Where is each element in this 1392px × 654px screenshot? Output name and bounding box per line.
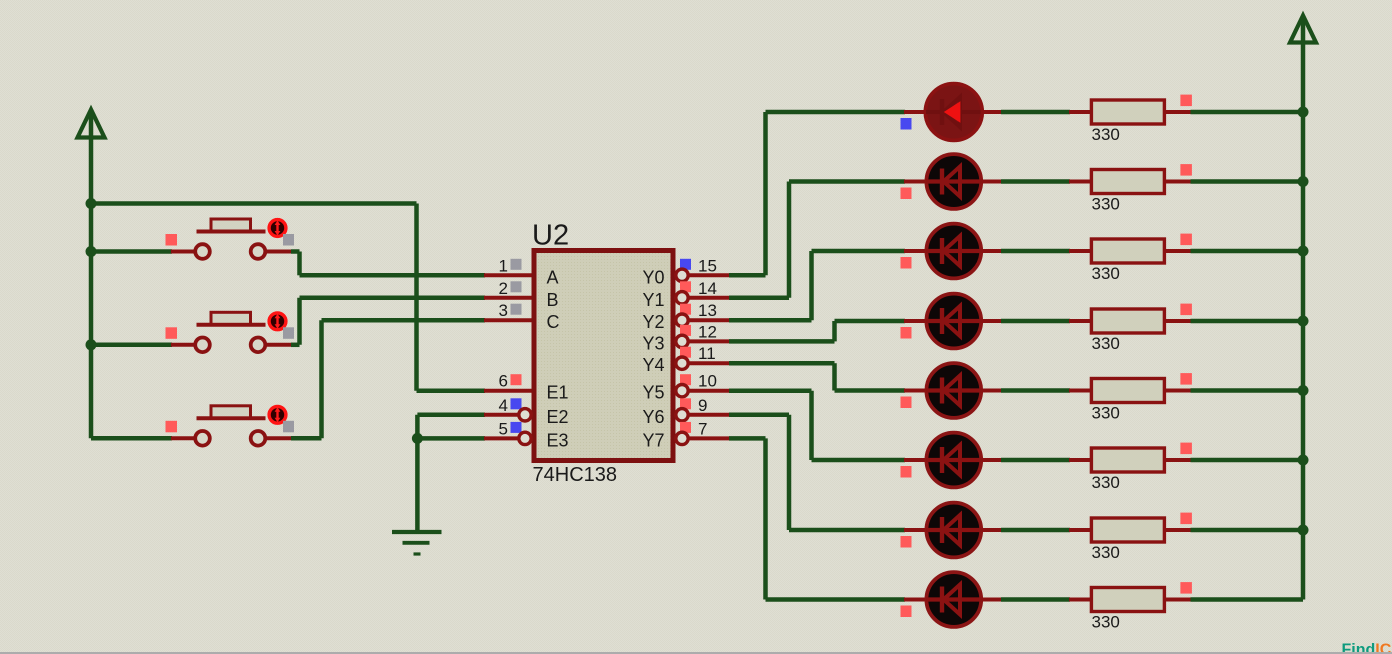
tag square left of LED D7	[901, 536, 912, 548]
push button S2	[195, 312, 265, 352]
bottom window edge strip	[0, 652, 1392, 654]
wire: routing column x=789 Y6 to LED row	[787, 415, 792, 530]
LED D4 (off)	[926, 294, 981, 349]
power terminal right (VCC arrow)	[1290, 16, 1316, 43]
ground symbol	[392, 532, 442, 554]
wire: resistor R5 to VCC bus	[1164, 389, 1303, 393]
junction dot VCC bus row 7	[1298, 525, 1309, 536]
value label 330 of R1	[1092, 125, 1120, 144]
svg-text:Y4: Y4	[642, 355, 664, 375]
wire: LED row 1 horizontal into LED D1	[766, 110, 926, 115]
svg-text:U2: U2	[532, 220, 569, 252]
wire: Y4 pin stub to routing column	[688, 361, 835, 365]
wire: LED D2 to resistor R2	[981, 180, 1093, 184]
svg-text:330: 330	[1092, 125, 1120, 144]
pin 2 (B) label and number	[499, 279, 559, 310]
tag square right of resistor R1	[1180, 95, 1192, 107]
LED D3 (off)	[926, 224, 981, 279]
value label 330 of R3	[1092, 264, 1120, 283]
wire: resistor R8 to VCC bus	[1164, 598, 1303, 602]
wire: resistor R3 to VCC bus	[1164, 249, 1303, 253]
wire: routing column x=811.5 Y5 to LED row	[809, 391, 814, 460]
wire: Y7 pin stub to routing column	[688, 436, 766, 440]
wire: LED row 7 horizontal into LED D7	[789, 528, 925, 533]
wire: vertical x=321.5 from button 3 row to decoder input row	[319, 320, 324, 438]
resistor R4 330 body	[1091, 309, 1164, 333]
wire: top rail from VCC to E1 drop	[89, 201, 417, 206]
wire: LED row 4 horizontal into LED D4	[835, 319, 926, 324]
pin 10 (Y5) bubble, label, number	[642, 372, 716, 403]
wire: net C into pin 3	[322, 318, 534, 323]
wire: Y3 pin stub to routing column	[688, 339, 835, 343]
junction dot at VCC rail / top rail	[86, 198, 97, 209]
svg-text:13: 13	[698, 301, 717, 320]
tag square left of LED D6	[901, 466, 912, 478]
pin 12 (Y3) bubble, label, number	[642, 322, 716, 353]
wire: net B into pin 2	[300, 296, 534, 301]
tag square right of resistor R8	[1180, 582, 1192, 594]
junction dot VCC bus row 4	[1298, 316, 1309, 327]
tag square right of resistor R2	[1180, 164, 1192, 176]
svg-text:A: A	[547, 267, 559, 287]
svg-text:Y0: Y0	[642, 267, 664, 287]
label U2	[532, 220, 569, 252]
svg-text:330: 330	[1092, 195, 1120, 214]
wire: LED D1 to resistor R1	[981, 110, 1093, 114]
value label 330 of R6	[1092, 473, 1120, 492]
pin 3 (C) label and number	[499, 301, 560, 332]
svg-text:7: 7	[698, 419, 707, 438]
pin 1 (A) label and number	[499, 256, 559, 287]
wire: E3 to ground column	[417, 436, 519, 441]
wire: LED row 8 horizontal into LED D8	[766, 597, 926, 602]
svg-text:Y3: Y3	[642, 333, 664, 353]
wire: LED D6 to resistor R6	[981, 458, 1093, 462]
wire: button 2 right terminal to column x=299.5	[265, 343, 300, 347]
wire: LED D3 to resistor R3	[981, 249, 1093, 253]
wire: ground column vertical	[415, 415, 420, 530]
wire: Y2 pin stub to routing column	[688, 318, 812, 322]
pin 15 (Y0) bubble, label, number	[642, 256, 716, 287]
svg-text:Y7: Y7	[642, 430, 664, 450]
svg-text:3: 3	[499, 301, 508, 320]
value label 330 of R8	[1092, 613, 1120, 632]
pin 13 (Y2) bubble, label, number	[642, 301, 716, 332]
wire: button 3 right terminal to column x=321.5	[265, 436, 322, 440]
power terminal left (VCC arrow)	[78, 110, 105, 140]
wire: right VCC bus vertical	[1301, 19, 1306, 600]
svg-text:10: 10	[698, 372, 717, 391]
resistor R5 330 body	[1091, 379, 1164, 403]
svg-text:E1: E1	[547, 383, 569, 403]
svg-text:12: 12	[698, 322, 717, 341]
svg-text:330: 330	[1092, 473, 1120, 492]
svg-text:330: 330	[1092, 264, 1120, 283]
tag square right of resistor R5	[1180, 373, 1192, 385]
button 2 toggle actuator icon	[269, 313, 286, 330]
gray tag square right of button 1	[283, 234, 294, 246]
wire: vertical drop x=416.5 to E1 row	[414, 204, 419, 391]
red tag square left of button 2	[166, 327, 178, 339]
wire: LED D7 to resistor R7	[981, 528, 1093, 532]
watermark FindIC	[1342, 642, 1392, 654]
wire: LED D8 to resistor R8	[981, 598, 1093, 602]
push button S3	[195, 406, 265, 446]
svg-text:330: 330	[1092, 404, 1120, 423]
pin 4 (E2) label and number	[499, 396, 569, 427]
wire: vertical x=299.5 from button 1 row to decoder input row	[297, 252, 302, 276]
svg-text:330: 330	[1092, 543, 1120, 562]
wire: VCC rail to button 1 left terminal	[91, 249, 196, 254]
gray tag square right of button 3	[283, 421, 294, 433]
junction dot VCC rail / button1 wire	[86, 246, 97, 257]
svg-text:15: 15	[698, 256, 717, 275]
svg-text:Y5: Y5	[642, 383, 664, 403]
wire: resistor R4 to VCC bus	[1164, 319, 1303, 323]
pin 5 (E3) label and number	[499, 419, 569, 450]
op IC U2 74HC138 body	[534, 251, 673, 461]
svg-text:74HC138: 74HC138	[533, 464, 618, 486]
wire: Y5 pin stub to routing column	[688, 389, 812, 393]
value label 330 of R7	[1092, 543, 1120, 562]
wire: LED row 6 horizontal into LED D6	[812, 458, 926, 463]
wire: resistor R6 to VCC bus	[1164, 458, 1303, 462]
tag square right of resistor R7	[1180, 513, 1192, 525]
svg-text:Y6: Y6	[642, 407, 664, 427]
button 3 toggle actuator icon	[269, 406, 286, 423]
LED D5 (off)	[926, 363, 981, 418]
wire: LED row 3 horizontal into LED D3	[812, 249, 926, 254]
wire: resistor R2 to VCC bus	[1164, 180, 1303, 184]
value label 330 of R2	[1092, 195, 1120, 214]
pin 14 (Y1) bubble, label, number	[642, 279, 716, 310]
junction dot E2/E3 ground column	[412, 433, 423, 444]
resistor R6 330 body	[1091, 448, 1164, 472]
pin 7 (Y7) bubble, label, number	[642, 419, 707, 450]
LED D8 (off)	[926, 572, 981, 627]
junction dot VCC bus row 3	[1298, 246, 1309, 257]
pin 9 (Y6) bubble, label, number	[642, 396, 707, 427]
svg-text:B: B	[547, 290, 559, 310]
wire: VCC rail to button 2 left terminal	[91, 343, 196, 348]
svg-text:9: 9	[698, 396, 707, 415]
tag square left of LED D5	[901, 397, 912, 409]
pin 11 (Y4) bubble, label, number	[642, 344, 715, 375]
svg-text:330: 330	[1092, 613, 1120, 632]
junction dot VCC bus row 1	[1298, 107, 1309, 118]
wire: Y0 pin stub to routing column	[688, 273, 766, 277]
LED D6 (off)	[926, 433, 981, 488]
wire: net A into pin 1	[300, 273, 534, 278]
svg-text:1: 1	[499, 256, 508, 275]
svg-text:Y1: Y1	[642, 290, 664, 310]
svg-text:5: 5	[499, 419, 508, 438]
tag square right of resistor R6	[1180, 443, 1192, 455]
junction dot VCC bus row 5	[1298, 385, 1309, 396]
wire: Y6 pin stub to routing column	[688, 413, 789, 417]
value label 330 of R5	[1092, 404, 1120, 423]
tag square left of LED D4	[901, 327, 912, 339]
svg-text:330: 330	[1092, 334, 1120, 353]
wire: button 1 right terminal to column x=299.5	[265, 250, 300, 254]
wire: routing column x=834.5 Y4 to LED row	[832, 363, 837, 390]
wire: routing column x=811.5 Y2 to LED row	[809, 251, 814, 320]
wire: left VCC rail vertical	[89, 137, 94, 438]
LED D1 (lit)	[925, 84, 982, 141]
svg-text:11: 11	[698, 344, 716, 363]
wire: LED D4 to resistor R4	[981, 319, 1093, 323]
tag square left of LED D8	[901, 606, 912, 618]
tag square left of LED D3	[901, 257, 912, 269]
junction dot VCC rail / button2 wire	[86, 339, 97, 350]
wire: routing column x=834.5 Y3 to LED row	[832, 321, 837, 341]
wire: vertical x=299.5 from button 2 row to decoder input row	[297, 298, 302, 345]
junction dot VCC bus row 2	[1298, 176, 1309, 187]
wire: resistor R7 to VCC bus	[1164, 528, 1303, 532]
red tag square left of button 3	[166, 421, 178, 433]
wire: VCC rail to button 3 left terminal	[91, 436, 196, 441]
svg-text:4: 4	[499, 396, 508, 415]
resistor R2 330 body	[1091, 170, 1164, 194]
LED D7 (off)	[926, 503, 981, 558]
label 74HC138	[533, 464, 618, 486]
value label 330 of R4	[1092, 334, 1120, 353]
svg-text:14: 14	[698, 279, 717, 298]
resistor R7 330 body	[1091, 518, 1164, 542]
gray tag square right of button 2	[283, 327, 294, 339]
wire: routing column x=765.5 Y0 to LED row	[763, 112, 768, 275]
push button S1	[195, 219, 265, 259]
wire: routing column x=765.5 Y7 to LED row	[763, 438, 768, 599]
svg-text:6: 6	[499, 372, 508, 391]
junction dot VCC bus row 6	[1298, 455, 1309, 466]
svg-text:C: C	[547, 312, 560, 332]
tag square right of resistor R3	[1180, 234, 1192, 246]
LED D2 (off)	[926, 154, 981, 209]
wire: Y1 pin stub to routing column	[688, 296, 789, 300]
tag square left of LED D2	[901, 188, 912, 200]
wire: LED row 2 horizontal into LED D2	[789, 179, 925, 184]
resistor R8 330 body	[1091, 588, 1164, 612]
svg-text:E2: E2	[547, 407, 569, 427]
wire: E2 to ground column	[417, 413, 519, 418]
tag square left of LED D1	[901, 118, 912, 130]
resistor R1 330 body	[1091, 100, 1164, 124]
wire: routing column x=789 Y1 to LED row	[787, 182, 792, 298]
svg-text:Y2: Y2	[642, 312, 664, 332]
tag square right of resistor R4	[1180, 304, 1192, 316]
wire: resistor R1 to VCC bus	[1164, 110, 1303, 114]
svg-text:2: 2	[499, 279, 508, 298]
button 1 toggle actuator icon	[269, 220, 286, 237]
wire: LED row 5 horizontal into LED D5	[835, 388, 926, 393]
pin 6 (E1) label and number	[499, 372, 569, 403]
wire: LED D5 to resistor R5	[981, 389, 1093, 393]
svg-text:E3: E3	[547, 430, 569, 450]
wire: E1 enable into pin 6	[417, 388, 534, 393]
resistor R3 330 body	[1091, 239, 1164, 263]
red tag square left of button 1	[166, 234, 178, 246]
